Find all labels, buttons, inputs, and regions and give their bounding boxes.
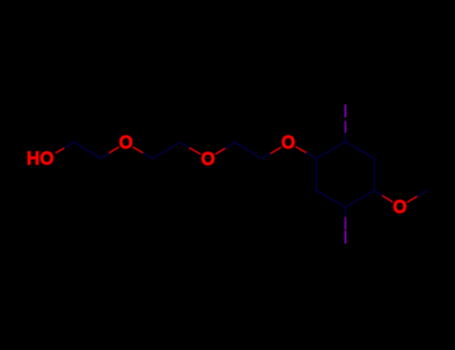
svg-text:I: I [343, 102, 348, 122]
svg-text:O: O [393, 197, 407, 217]
wire C2-O1 blue half [101, 153, 110, 159]
wire C6-O3 red half [271, 148, 280, 154]
wire C1-C2 [74, 142, 101, 158]
wire C4-O2 red half [190, 148, 200, 154]
wire ring-O4 blue half [374, 191, 383, 197]
svg-text:I: I [343, 228, 348, 248]
wire O2-C5 blue half [225, 143, 235, 149]
wire C5-C6 [235, 143, 262, 159]
benzene ring C6'-C1' (ll-ul) [315, 158, 317, 190]
benzene ring C1'-C2' (ul-top) [316, 142, 345, 159]
svg-text:O: O [201, 149, 215, 169]
wire ring-O4 red half [383, 196, 392, 202]
wire O4-CH3 red half [408, 196, 418, 202]
wire ring-I1 purple half [344, 122, 346, 132]
wire O1-C3 blue half [143, 153, 153, 159]
wire O3-ring red half [296, 147, 306, 153]
wire C2-O1 red half [110, 147, 119, 152]
svg-text:O: O [119, 133, 133, 153]
wire O1-C3 red half [133, 147, 143, 153]
benzene ring C5'-C6' (bot-ll) [316, 191, 345, 207]
wire C4-O2 blue half [180, 142, 190, 148]
benzene ring C3'-C4' (ur-lr) [373, 158, 375, 190]
wire ring-I1 blue half [344, 132, 346, 142]
svg-text:O: O [40, 149, 54, 169]
wire C6-O3 blue half [262, 153, 271, 159]
wire HO-C1 red half [56, 148, 64, 153]
benzene ring C4'-C5' (lr-bot) [345, 191, 374, 207]
wire C3-C4 [153, 142, 180, 158]
benzene ring C2'-C3' (top-ur) [345, 142, 374, 158]
svg-text:H: H [27, 149, 40, 169]
wire ring-I2 blue half [344, 207, 346, 218]
wire O3-ring blue half [306, 153, 316, 159]
wire O2-C5 red half [216, 148, 226, 154]
wire HO-C1 blue half [64, 142, 74, 148]
wire ring-I2 purple half [344, 218, 346, 229]
wire O4-CH3 blue half [417, 191, 427, 197]
svg-text:O: O [281, 133, 295, 153]
